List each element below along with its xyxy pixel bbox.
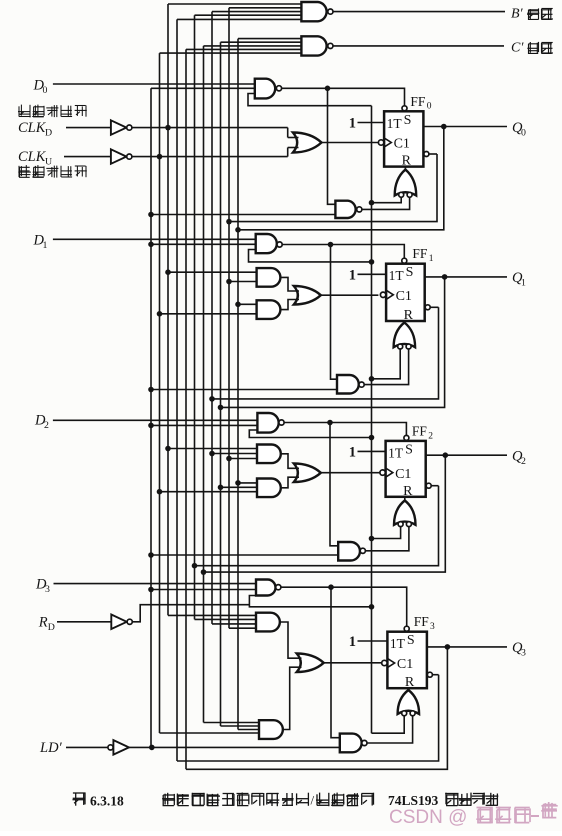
junction Q0 bus — [235, 227, 241, 233]
label D3 — [35, 577, 50, 596]
NAND gate G11a (load-low, stage 3) — [340, 734, 367, 753]
svg-text:S: S — [407, 633, 415, 648]
svg-text:R: R — [405, 675, 415, 690]
junction G2 output feedback — [328, 242, 334, 248]
svg-text:D: D — [48, 622, 55, 633]
svg-text:3: 3 — [521, 648, 526, 659]
label FF1 — [412, 246, 433, 264]
label CLKD — [18, 120, 52, 139]
watermark CSDN @追逐者-桥 — [389, 802, 558, 828]
negative-OR gate G14 (reset, stage 2) — [394, 501, 416, 527]
flip-flop FF2 — [380, 435, 431, 498]
svg-text:1: 1 — [349, 267, 356, 283]
OR gate G6 (clock, stage 1) — [294, 286, 321, 305]
wire LOAD to G8b pin2 — [151, 389, 337, 391]
svg-text:CSDN @: CSDN @ — [389, 807, 467, 828]
NAND gate G2 (set, stage 1) — [256, 234, 283, 253]
junction G4 output feedback — [328, 584, 334, 590]
junction LOAD bus on LD' line — [149, 745, 155, 751]
junction RD bus wrap stage 3 — [369, 604, 375, 610]
junction Q1 bus — [218, 405, 224, 411]
wire Q1' to A3 — [209, 451, 257, 457]
wire Q0 to G10 pin1 — [238, 38, 301, 40]
svg-text:1: 1 — [349, 116, 356, 132]
svg-text:2: 2 — [428, 431, 433, 441]
AND gate A1 (down, stage 1) — [257, 268, 281, 287]
junction CLKU' tap — [157, 154, 163, 160]
wire FF1 Q output — [425, 276, 507, 278]
junction RD bus wrap stage 2 — [369, 435, 375, 441]
wire D3 — [54, 583, 257, 585]
junction Q1 feedback — [442, 274, 448, 280]
wire FF3 Q' output — [432, 674, 438, 676]
wire FF2 Q output — [426, 454, 507, 456]
wire G3 pin3 wrap to RD bus — [249, 430, 371, 438]
wire G4 output down to G8 stage 3 — [331, 587, 340, 738]
svg-text:0: 0 — [521, 127, 526, 138]
NAND gate G8a (load-low, stage 0) — [335, 201, 362, 218]
wire Q0' bus vertical — [228, 8, 230, 628]
svg-text:3: 3 — [430, 622, 435, 632]
wire Q2 to G10 pin3 — [204, 45, 302, 47]
5-input NAND gate G10 (carry C') — [301, 36, 333, 55]
wire Q2 bus vertical — [203, 46, 205, 723]
svg-text:1T: 1T — [387, 116, 403, 131]
wire constant 1 to FF3 1T — [358, 640, 388, 642]
NAND gate G9a (load-low, stage 1) — [337, 375, 364, 394]
flip-flop FF3 — [382, 626, 433, 690]
junction Q1' bus — [209, 396, 215, 402]
wire Q3 to G10 pin4 — [186, 48, 301, 50]
svg-text:C1: C1 — [395, 467, 411, 482]
wire Q2 feedback loop — [204, 455, 446, 572]
svg-text:/: / — [311, 793, 315, 808]
wire Q1 feedback loop — [221, 277, 445, 408]
wire G12 output to FF0 R — [404, 167, 406, 171]
wire G14 output to FF2 R — [404, 497, 406, 502]
wire G15 output to FF3 R — [407, 688, 409, 691]
wire A1 output elbow — [280, 277, 299, 291]
label LD' — [39, 740, 63, 756]
wire CLKD' to A1 — [165, 269, 256, 275]
wire G6 output to FF1 C1 — [321, 294, 379, 296]
wire CLKU' line — [132, 148, 288, 157]
wire A6 output elbow — [283, 667, 302, 729]
wire A4 output elbow — [281, 477, 299, 488]
svg-text:1T: 1T — [390, 636, 406, 651]
svg-text:R: R — [38, 615, 48, 631]
svg-text:R: R — [403, 484, 413, 499]
junction G3 output feedback — [327, 420, 333, 426]
wire CLKU' to A2 — [157, 311, 257, 317]
junction CLKD' tap — [165, 125, 171, 131]
wire LOAD to G2 pin2 — [151, 243, 256, 245]
svg-text:1: 1 — [349, 444, 356, 460]
wire Q2' feedback loop — [195, 486, 439, 566]
wire Q3' bus vertical — [176, 19, 178, 761]
label D0 — [33, 78, 48, 97]
wire Q0 bus vertical — [237, 39, 239, 730]
wire CLKU' to G10 pin5 — [160, 52, 302, 54]
wire Q2' to G9 pin4 — [195, 14, 302, 16]
AND gate A2 (up, stage 1) — [257, 300, 281, 319]
wire FF1 Q' output — [430, 306, 438, 308]
wire D1 — [53, 238, 256, 240]
svg-text:CLK: CLK — [18, 149, 47, 165]
svg-text:C1: C1 — [396, 289, 412, 304]
wire Q0' feedback loop — [229, 154, 437, 222]
wire G1 pin3 wrap to RD bus — [248, 94, 372, 106]
label Q0 — [512, 120, 526, 139]
wire G3 output down to G8 stage 2 — [330, 423, 338, 546]
NAND gate G1 (set, stage 0) — [255, 79, 282, 99]
wire CLKD' line — [132, 128, 288, 138]
wire CLKD' to G9 pin1 — [168, 3, 301, 5]
wire CLKU label to inverter — [64, 156, 111, 158]
svg-text:S: S — [406, 265, 414, 280]
label FF3 — [414, 614, 435, 632]
flip-flop FF1 — [380, 258, 430, 323]
OR gate G7 (clock, stage 2) — [294, 464, 321, 483]
junction Q0 feedback — [441, 124, 447, 130]
label D2 — [34, 413, 49, 432]
negative-OR gate G15 (reset, stage 3) — [398, 690, 420, 716]
wire G1 output to FF0 S — [282, 88, 405, 105]
wire Q1 bus vertical — [220, 42, 222, 726]
wire Q0' to G9 pin2 — [229, 7, 301, 9]
wire G11 output to FF3 C1 — [324, 662, 382, 664]
wire Q0 to A4 — [235, 480, 257, 486]
svg-text:FF: FF — [414, 614, 430, 629]
svg-text:B′: B′ — [511, 7, 524, 22]
wire CLKD' elbow into G5 — [288, 137, 299, 139]
wire CLKD' bus vertical — [167, 4, 169, 615]
label C' 进位 — [511, 41, 553, 56]
wire Q1' bus vertical — [211, 12, 213, 624]
svg-text:74LS193: 74LS193 — [388, 793, 439, 808]
wire FF0 Q output — [423, 126, 507, 128]
wire RD bus to G13 left input — [372, 349, 401, 379]
wire Q3 feedback loop — [186, 647, 447, 769]
junction Q2 bus — [201, 569, 207, 575]
svg-text:1T: 1T — [388, 445, 404, 460]
svg-text:C1: C1 — [397, 657, 413, 672]
junction RD bus wrap stage 1 — [369, 259, 375, 265]
wire LOAD to G1 pin2 — [151, 87, 255, 89]
svg-text:FF: FF — [410, 94, 426, 109]
wire RD bus to G12 left input — [372, 197, 402, 202]
wire CLKD' to A5 — [168, 614, 256, 616]
wire C' output — [333, 45, 504, 47]
wire D0 — [53, 83, 255, 85]
svg-text:C′: C′ — [511, 41, 524, 56]
OR gate G5 (clock, stage 0) — [293, 133, 322, 153]
wire LOAD to G3 pin2 — [151, 424, 257, 426]
svg-text:S: S — [405, 442, 413, 457]
svg-text:1T: 1T — [389, 268, 405, 283]
junction RD bus stage 0 — [369, 200, 375, 206]
junction RD bus stage 1 — [369, 376, 375, 382]
label RD — [38, 615, 55, 634]
junction G1 output feedback — [325, 86, 331, 92]
svg-text:R: R — [404, 308, 414, 323]
wire G2 pin3 wrap to RD bus — [249, 250, 372, 262]
wire G10a output to G14 right input — [365, 527, 409, 551]
label 加计数脉冲 — [18, 165, 87, 178]
wire Q3' feedback loop — [177, 675, 439, 761]
svg-text:2: 2 — [521, 456, 526, 467]
wire G4 output to FF3 S — [281, 587, 407, 626]
wire Q3 bus vertical — [185, 49, 187, 769]
negative-OR gate G13 (reset, stage 1) — [394, 323, 416, 350]
wire Q1 to G10 pin2 — [221, 41, 302, 43]
wire Q2' bus vertical — [194, 15, 196, 619]
svg-text:1: 1 — [349, 634, 356, 650]
svg-text:R: R — [402, 154, 412, 169]
wire G5 output to FF0 C1 — [322, 142, 379, 144]
wire G1 output down to G8 stage 0 — [328, 88, 336, 204]
NAND gate G10a (load-low, stage 2) — [338, 542, 365, 561]
wire LOAD to G8a pin2 — [151, 214, 335, 216]
wire constant 1 to FF1 1T — [358, 273, 387, 275]
svg-text:0: 0 — [427, 102, 432, 112]
junction LOAD tap st2 — [148, 552, 154, 558]
wire LD' line to G8d — [129, 746, 340, 748]
flip-flop FF0 — [378, 106, 429, 169]
label FF0 — [410, 94, 431, 112]
label 减计数脉冲 — [18, 105, 87, 118]
svg-text:U: U — [45, 157, 52, 168]
wire Q0' to A3 — [226, 456, 257, 462]
junction Q2' bus — [192, 563, 198, 569]
AND gate A6 (up, stage 3) — [259, 720, 283, 739]
wire FF2 Q' output — [431, 485, 438, 487]
junction LOAD tap st1 S — [148, 242, 154, 248]
wire Q1 to A6 — [221, 725, 260, 727]
wire constant 1 to FF2 1T — [358, 450, 386, 452]
5-input NAND gate G9 (borrow B') — [301, 2, 333, 21]
svg-text:D: D — [45, 128, 52, 139]
inverter V3 (RD) — [111, 615, 132, 630]
wire Q1' feedback loop — [212, 307, 439, 399]
label constant 1 stage 3 — [349, 634, 356, 650]
OR gate G11 (clock, stage 3) — [297, 654, 324, 673]
wire A2 output elbow — [280, 300, 299, 310]
AND gate A5 (down, stage 3) — [256, 613, 280, 632]
wire G2 output to FF1 S — [282, 245, 404, 259]
wire Q3' to G9 pin5 — [177, 18, 301, 20]
wire Q1 to A4 — [218, 485, 257, 491]
svg-text:FF: FF — [412, 423, 428, 438]
label Q1 — [512, 270, 526, 289]
svg-text:2: 2 — [44, 420, 49, 431]
wire D2 — [53, 419, 258, 421]
wire G2 output down to G8 stage 1 — [331, 245, 338, 380]
wire Q2' to A5 — [195, 618, 257, 620]
wire CLKD label to inverter — [66, 127, 111, 129]
AND gate A4 (up, stage 2) — [257, 479, 281, 498]
wire A3 output elbow — [281, 454, 299, 469]
inverter V2 (CLKU) — [111, 149, 132, 164]
wire G7 output to FF2 C1 — [321, 472, 380, 474]
wire RD bus to G14 left input — [372, 527, 401, 539]
wire A5 output elbow — [280, 622, 302, 658]
label constant 1 stage 1 — [349, 267, 356, 283]
label D1 — [33, 233, 48, 252]
wire FF3 Q output — [427, 646, 507, 648]
label B' 借位 — [511, 7, 553, 22]
wire B' output — [333, 11, 505, 13]
inverter V1 (CLKD) — [111, 120, 132, 135]
wire constant 1 to FF0 1T — [358, 122, 385, 124]
wire RD' riser — [132, 605, 249, 622]
junction LOAD tap st1 — [148, 387, 154, 393]
wire CLKU' to A6 — [160, 732, 260, 734]
wire G9a output to G13 right input — [364, 349, 409, 385]
wire Q1' to G9 pin3 — [212, 11, 301, 13]
wire LOAD to G8c pin2 — [151, 554, 338, 556]
wire CLKU' to A4 — [157, 489, 257, 495]
junction LOAD tap st2 S — [148, 423, 154, 429]
wire CLKU' elbow into G5 — [288, 147, 299, 149]
wire Q0' to A5 — [229, 627, 256, 629]
svg-text:FF: FF — [412, 246, 428, 261]
wire Q0 to A2 — [235, 302, 256, 308]
wire Q1' to A5 — [212, 623, 256, 625]
wire LOAD to G4 pin2 — [151, 589, 256, 591]
wire G3 output to FF2 S — [284, 423, 406, 436]
wire Q0' to A1 — [226, 279, 256, 285]
wire LD' label to inverter — [66, 746, 108, 748]
label FF2 — [412, 423, 433, 441]
junction LOAD tap st0 — [148, 212, 154, 218]
wire G11a output to G15 right input — [367, 716, 413, 743]
negative-OR gate G12 (reset, stage 0) — [395, 170, 417, 198]
svg-text:LD′: LD′ — [39, 740, 63, 756]
wire RD label to inverter — [57, 621, 111, 623]
label CLKU — [18, 149, 52, 168]
junction LOAD tap st3 S — [148, 587, 154, 593]
NAND gate G4 (set, stage 3) — [256, 580, 281, 596]
label constant 1 stage 2 — [349, 444, 356, 460]
wire Q0 to A6 — [238, 729, 259, 731]
svg-text:S: S — [404, 113, 412, 128]
junction Q3 feedback — [445, 644, 451, 650]
wire CLKD' to A3 — [165, 446, 257, 452]
junction Q2 feedback — [443, 452, 449, 458]
svg-text:0: 0 — [43, 85, 48, 96]
svg-text:1: 1 — [429, 254, 434, 264]
label Q3 — [512, 640, 526, 659]
label constant 1 stage 0 — [349, 116, 356, 132]
junction Q0' bus — [226, 219, 232, 225]
svg-text:CLK: CLK — [18, 120, 47, 136]
label Q2 — [512, 449, 526, 468]
wire Q2 to A6 — [204, 722, 260, 724]
wire G8a output to G12 right input — [362, 197, 410, 209]
wire RD bus to G15 left input — [372, 716, 405, 733]
svg-text:1: 1 — [521, 278, 526, 289]
inverter V4 (LD, input bubble) — [108, 740, 129, 755]
NAND gate G3 (set, stage 2) — [257, 413, 284, 433]
AND gate A3 (down, stage 2) — [257, 445, 281, 464]
svg-text:6.3.18: 6.3.18 — [90, 794, 124, 809]
wire G13 output to FF1 R — [403, 321, 405, 324]
wire RD bus vertical — [371, 106, 373, 734]
caption 图6.3.18 双时钟同步十六进制加/减计数器 74LS193 的逻辑图 — [73, 792, 499, 808]
wire G4 pin3 wrap to RD bus — [249, 596, 371, 607]
svg-text:1: 1 — [43, 240, 48, 251]
wire CLKU' bus vertical — [159, 53, 161, 733]
wire Q0 feedback loop — [238, 127, 444, 230]
junction RD bus stage 2 — [369, 536, 375, 542]
svg-text:3: 3 — [45, 584, 50, 595]
wire FF0 Q' output — [429, 153, 437, 155]
svg-text:C1: C1 — [394, 137, 410, 152]
wire LOAD bus vertical — [150, 88, 152, 747]
